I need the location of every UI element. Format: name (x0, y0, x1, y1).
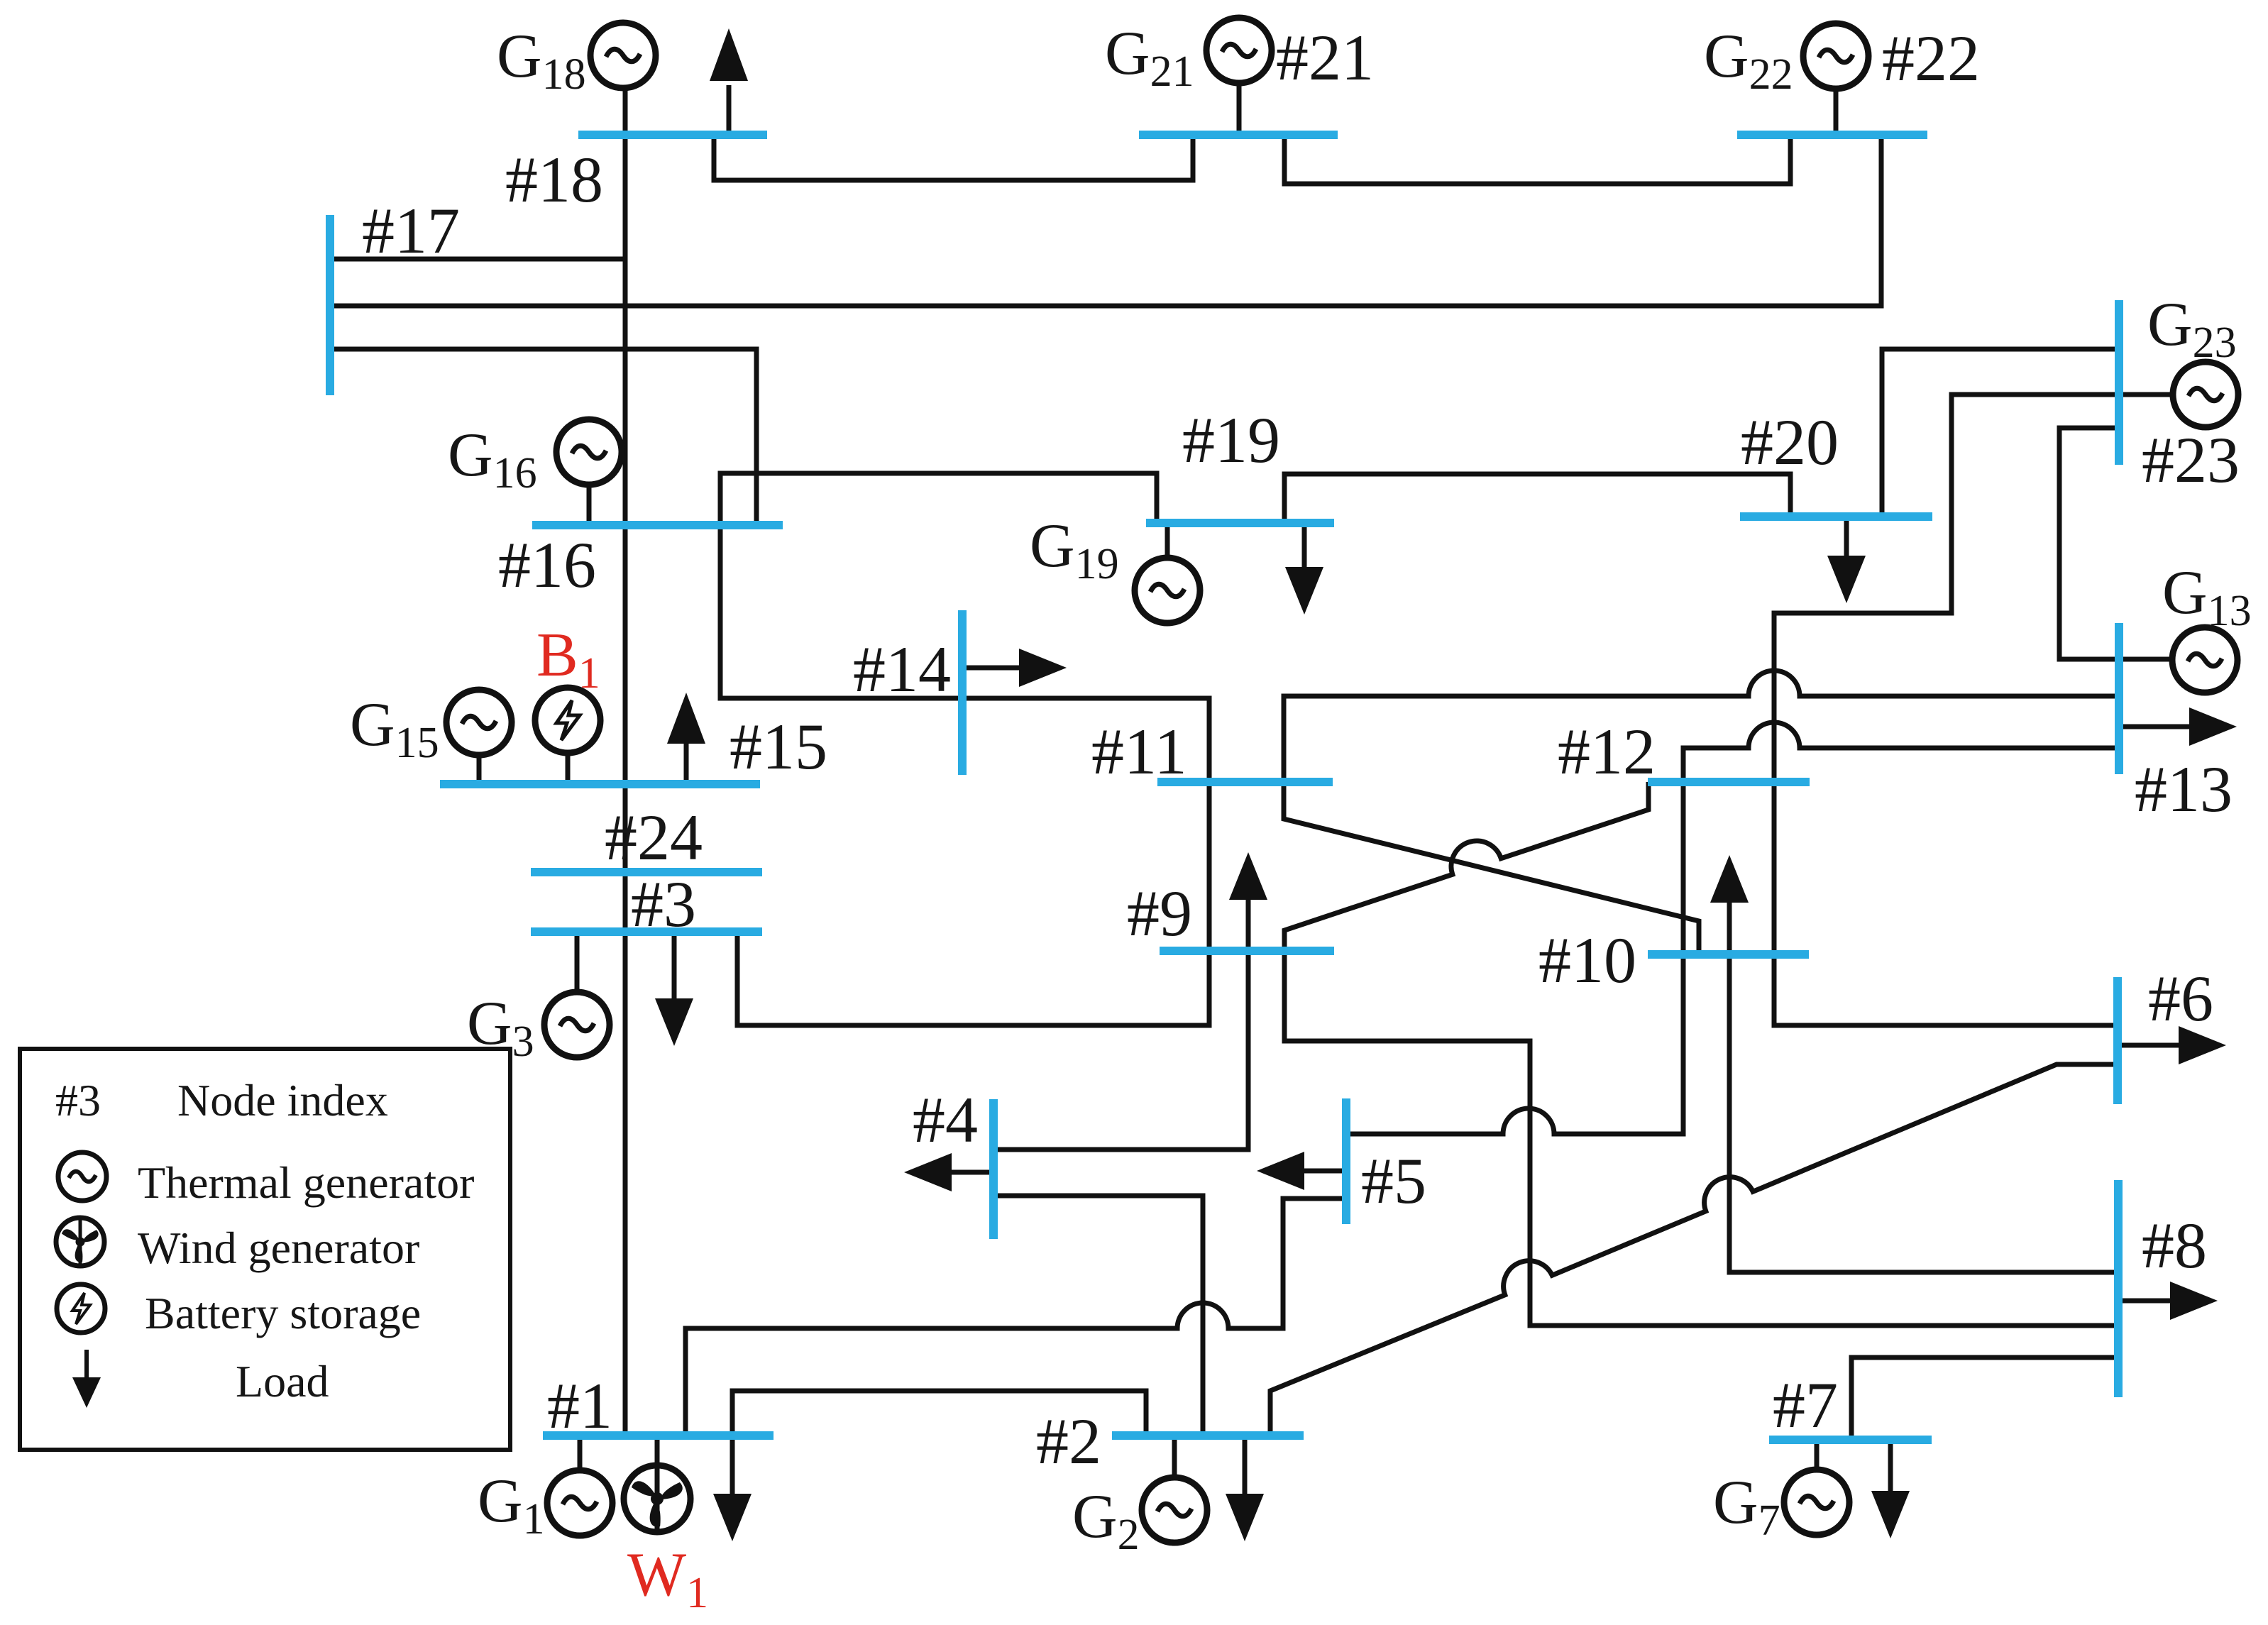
thermal generator G22 (1803, 23, 1868, 89)
thermal generator G23 (2173, 362, 2238, 427)
bus 21 (1139, 131, 1338, 139)
svg-text:#3: #3 (631, 868, 696, 940)
wire W1 stem (655, 1436, 660, 1466)
svg-text:#11: #11 (1091, 715, 1187, 788)
bus 6 (2113, 977, 2122, 1104)
bus 15 (440, 780, 760, 788)
svg-text:Battery storage: Battery storage (145, 1288, 421, 1338)
bus 1 (543, 1431, 774, 1440)
wind generator W1 (624, 1465, 690, 1532)
thermal generator G18 (590, 23, 656, 88)
wire 11-13 (1284, 671, 2119, 782)
svg-text:#13: #13 (2135, 753, 2233, 825)
thermal generator G3 (544, 992, 610, 1057)
wire 2-4 (993, 1196, 1203, 1436)
svg-text:Wind generator: Wind generator (138, 1223, 419, 1273)
wire 16-19 (720, 473, 1157, 525)
svg-text:#23: #23 (2142, 424, 2240, 496)
wire 5-10 (1346, 954, 1683, 1134)
svg-text:#8: #8 (2142, 1209, 2207, 1282)
wire 17-18 (330, 257, 625, 262)
svg-text:#18: #18 (505, 143, 603, 216)
battery storage B1 (535, 688, 600, 753)
wire 13-23 with G13 stem (2059, 428, 2171, 659)
bus 17 (326, 215, 334, 395)
svg-text:#6: #6 (2148, 962, 2213, 1035)
svg-text:#17: #17 (362, 194, 460, 267)
wire 1-2 with load arrow bus 1 (732, 1391, 1146, 1499)
svg-text:#5: #5 (1361, 1145, 1426, 1217)
thermal generator G13 (2172, 627, 2237, 693)
svg-text:#14: #14 (853, 633, 951, 705)
legend box (20, 1049, 510, 1450)
load arrow bus 7 (1888, 1440, 1893, 1496)
load arrow bus 9 (1229, 852, 1267, 900)
wire spine 18-16-15-24-3-1 with G18 stem (623, 91, 628, 1436)
wire 2-6 (1270, 1064, 2118, 1436)
load arrow bus 1 head (713, 1494, 752, 1541)
wire 9-11 (1207, 782, 1212, 951)
svg-text:Load: Load (236, 1356, 329, 1406)
bus 23 (2115, 300, 2123, 465)
wire G21 stem (1237, 84, 1242, 135)
wire 10-12 (1772, 782, 1777, 954)
legend thermal generator symbol (58, 1152, 106, 1201)
bus 10 (1648, 950, 1809, 959)
wire G1 stem (578, 1436, 583, 1470)
bus 18 (578, 131, 767, 139)
wire 6-10 (1774, 954, 2118, 1025)
load arrow bus 2 (1243, 1436, 1248, 1499)
svg-text:Node index: Node index (177, 1075, 388, 1125)
bus 3 (531, 927, 762, 936)
load arrow bus 3 (672, 932, 677, 1003)
svg-text:#24: #24 (605, 801, 703, 874)
thermal generator G19 (1135, 558, 1200, 623)
svg-text:#20: #20 (1741, 406, 1839, 478)
svg-text:Thermal generator: Thermal generator (138, 1157, 474, 1208)
wire G22 stem (1834, 91, 1839, 135)
wire 18-21 (714, 135, 1193, 180)
wire G23 stem (2119, 392, 2171, 397)
bus 20 (1740, 512, 1932, 521)
load arrow bus 10 head (1710, 855, 1749, 903)
wire G7 stem (1815, 1440, 1820, 1470)
bus 7 (1769, 1436, 1932, 1444)
wire 14-16 (720, 525, 962, 698)
svg-text:#1: #1 (547, 1370, 612, 1442)
load arrow bus 14 (right) (962, 666, 1022, 671)
wire 7-8 (1851, 1357, 2118, 1440)
bus 11 (1157, 778, 1333, 786)
load arrow bus 19 (1302, 523, 1307, 572)
thermal generator G21 (1206, 18, 1272, 83)
bus 12 (1648, 778, 1810, 786)
svg-text:#21: #21 (1276, 21, 1374, 94)
svg-text:#19: #19 (1182, 404, 1280, 476)
bus 9 (1160, 947, 1334, 955)
wire 10-11 (1284, 782, 1699, 954)
load arrow bus 6 (right) (2118, 1043, 2182, 1048)
svg-text:#12: #12 (1558, 715, 1656, 788)
wire 17-22 (330, 135, 1881, 306)
wire 12-10 second tie (1681, 782, 1686, 954)
wire 12-13 (1683, 722, 2119, 782)
wire 1-5 (686, 1199, 1346, 1436)
wire 8-10 with arrow bus 10 (1729, 898, 2118, 1272)
wire G16 stem (587, 485, 592, 525)
legend wind generator symbol (56, 1218, 104, 1266)
wire 4-9 (993, 896, 1248, 1150)
load arrow bus 4 (left) (947, 1170, 993, 1175)
svg-text:#2: #2 (1036, 1405, 1101, 1477)
svg-text:#10: #10 (1538, 924, 1636, 996)
wire 3-9 (737, 932, 1209, 1025)
wire 12-23 (1774, 395, 2119, 782)
svg-text:#22: #22 (1882, 22, 1980, 94)
bus 22 (1737, 131, 1927, 139)
load arrow bus 15 (up) (684, 739, 689, 784)
wire B1 stem (566, 754, 571, 784)
wire 8-9 (1284, 951, 2118, 1326)
svg-text:#15: #15 (730, 710, 827, 783)
wire 21-22 (1284, 135, 1790, 184)
load arrow bus 8 (right) (2118, 1299, 2174, 1304)
wire 9-12 (1284, 782, 1648, 951)
legend load arrow (84, 1350, 89, 1382)
thermal generator G16 (556, 419, 622, 485)
load arrow bus 20 (1844, 517, 1849, 561)
wire 11-14 (962, 698, 1209, 782)
wire 19-20 (1284, 474, 1790, 523)
svg-text:#16: #16 (498, 529, 596, 601)
svg-text:#4: #4 (913, 1084, 978, 1156)
thermal generator G15 (446, 690, 512, 755)
svg-text:#7: #7 (1773, 1369, 1838, 1441)
thermal generator G7 (1784, 1470, 1849, 1535)
bus 2 (1112, 1431, 1304, 1440)
wire G19 stem (1165, 523, 1170, 558)
load arrow bus 18 (up) (727, 85, 732, 135)
bus 5 (1342, 1098, 1350, 1224)
bus 16 (532, 521, 783, 529)
wire 16-17 (330, 349, 756, 525)
bus 8 (2114, 1180, 2123, 1397)
wire G15 stem (477, 756, 482, 784)
wire 20-23 (1882, 349, 2119, 517)
legend battery storage symbol (57, 1284, 105, 1333)
svg-text:#9: #9 (1127, 877, 1192, 949)
load arrow bus 13 (right) (2119, 725, 2193, 729)
load arrow bus 5 (left) (1301, 1169, 1346, 1174)
bus 24 (531, 868, 762, 876)
bus 4 (989, 1099, 998, 1239)
wire G2 stem (1172, 1436, 1177, 1477)
thermal generator G2 (1142, 1477, 1207, 1543)
bus 13 (2115, 623, 2123, 774)
bus 19 (1146, 519, 1334, 527)
thermal generator G1 (547, 1470, 612, 1536)
bus 14 (958, 610, 967, 775)
wire G3 stem (575, 932, 580, 992)
svg-text:#3: #3 (55, 1075, 101, 1125)
